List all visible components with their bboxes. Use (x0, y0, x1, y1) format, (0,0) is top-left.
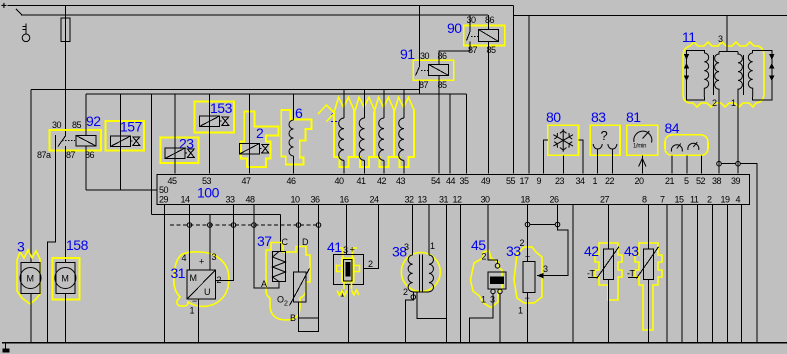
primary winding right (738, 52, 742, 96)
aux signal 83 (590, 109, 620, 174)
wire bus30 to pin2 (488, 205, 497, 264)
wire junction line y214 (151, 214, 280, 216)
wire winding bottoms joined (413, 291, 429, 293)
svg-text:46: 46 (287, 176, 297, 186)
svg-text:U: U (204, 287, 210, 297)
svg-text:17: 17 (520, 176, 530, 186)
svg-text:3: 3 (404, 242, 409, 252)
relay 92 (37, 94, 101, 342)
ignition coil 11 (682, 16, 775, 343)
svg-text:21: 21 (665, 176, 675, 186)
svg-text:55: 55 (506, 176, 516, 186)
wire bus2 to ground (712, 205, 714, 343)
wire bus26 to pin3 arrow (537, 205, 568, 276)
svg-text:29: 29 (159, 195, 169, 205)
wire rail 30 (top supply rail) (8, 5, 514, 7)
wire comp84 to bus5 (686, 155, 688, 173)
svg-text:27: 27 (600, 195, 610, 205)
svg-text:48: 48 (246, 195, 256, 205)
wire relay91 pin85 down to bus terminal 54 (438, 76, 440, 174)
fuse supply wire (64, 6, 66, 136)
wire bus7 to ground (666, 205, 668, 343)
wire coil6 vertical (293, 94, 295, 174)
svg-text:33: 33 (226, 195, 236, 205)
wire rail B right end down to bus terminal 35 (465, 94, 467, 174)
socket hooks (593, 144, 602, 149)
relay 92 dotted actuator link (62, 140, 75, 142)
wire bus36 to shield (318, 205, 320, 319)
wire bus31 to ground (446, 205, 448, 343)
wire relay92 pin85 up to rail B (85, 94, 87, 136)
svg-text:86: 86 (485, 15, 495, 25)
relay 90 (447, 15, 505, 174)
svg-text:26: 26 (550, 195, 560, 205)
hall sender 38 (392, 205, 461, 343)
core bars (714, 55, 744, 95)
wire relay90 pin85 down to bus terminal 49 (487, 42, 489, 174)
tachometer signal 81 (626, 109, 658, 174)
wire bus24 to pin2 (363, 205, 378, 269)
relay 90 coil box (479, 30, 499, 42)
svg-text:83: 83 (591, 109, 606, 125)
wire pin3 from junction line (209, 215, 211, 270)
svg-text:30: 30 (420, 51, 430, 61)
svg-text:53: 53 (202, 176, 212, 186)
svg-text:38: 38 (712, 176, 722, 186)
secondary winding left (704, 53, 708, 97)
svg-text:39: 39 (731, 176, 741, 186)
wire relay90 pin87 down-left to relay 91 (469, 42, 471, 52)
wire valve153 vertical (209, 94, 211, 174)
svg-text:+: + (1, 1, 7, 12)
connector circle pin1 (736, 161, 741, 166)
svg-text:O: O (277, 295, 284, 305)
wire bus48 to pin A (254, 205, 279, 289)
wire motor158 to ground (64, 294, 66, 343)
wire pin1 to ground (527, 293, 529, 343)
connector circle pin2 (411, 295, 416, 300)
svg-text:153: 153 (210, 100, 233, 116)
svg-text:43: 43 (624, 243, 639, 259)
wire relay91 pin86 up and over to relay90 pin87 (439, 42, 470, 65)
svg-text:31: 31 (439, 195, 449, 205)
svg-text:85: 85 (72, 120, 82, 130)
svg-text:31: 31 (171, 265, 186, 281)
svg-text:14: 14 (181, 195, 191, 205)
wire drop to bus terminal 17 (528, 16, 530, 174)
svg-text:11: 11 (682, 29, 696, 45)
svg-text:87a: 87a (37, 150, 51, 160)
svg-text:3: 3 (212, 252, 217, 262)
svg-text:12: 12 (453, 195, 463, 205)
wire relay92 pin87 down to motor 158 (64, 146, 66, 263)
svg-text:7: 7 (660, 195, 665, 205)
relay 91 (400, 6, 470, 174)
svg-text:?: ? (601, 128, 608, 143)
wire comp80 left to bus9 (544, 140, 548, 174)
svg-text:24: 24 (370, 195, 380, 205)
wire bus13 to pin1 (428, 205, 430, 256)
AC compressor signal 80 (544, 109, 584, 174)
svg-text:158: 158 (66, 237, 89, 253)
wire bus27 through sensor42 to ground (608, 205, 610, 343)
ground bus bar (2, 342, 787, 344)
fuel pump motor 3 (17, 239, 41, 343)
wire bus10 to sensor D (298, 205, 300, 273)
wire motor3 to ground (30, 294, 32, 343)
svg-text:9: 9 (537, 176, 542, 186)
svg-text:30: 30 (481, 195, 491, 205)
wire pin2 to ground (405, 292, 413, 342)
wire comp84 to bus21 (671, 155, 673, 173)
solenoid valve 157 (106, 94, 145, 190)
svg-text:90: 90 (447, 20, 462, 36)
svg-text:2: 2 (520, 238, 525, 248)
svg-text:11: 11 (690, 195, 699, 205)
svg-text:+: + (350, 245, 355, 255)
wire coil11 pin2 to bus38 (718, 96, 720, 174)
instrument gauges 84 (665, 120, 709, 174)
svg-text:2: 2 (707, 195, 712, 205)
svg-text:42: 42 (377, 176, 387, 186)
wire relay92 pin87a down with jog (48, 135, 56, 342)
svg-text:91: 91 (400, 46, 415, 62)
svg-text:+: + (199, 257, 204, 267)
wire rail30 jog down at right end (513, 6, 515, 174)
solenoid valve 23 (161, 94, 199, 174)
wire coil11 pin1 to bus39 (737, 96, 739, 174)
svg-text:B: B (290, 313, 296, 323)
wire relay92 pin86 down to bus 50 line (85, 146, 87, 190)
svg-text:3: 3 (17, 239, 25, 255)
svg-text:22: 22 (605, 176, 615, 186)
wire bus14 to pin4 (189, 205, 191, 271)
svg-text:92: 92 (86, 113, 101, 129)
svg-text:84: 84 (665, 120, 680, 136)
wire comp81 to bus20 with arrow (641, 155, 643, 173)
wire relay91 pin87 down to rail A (419, 80, 421, 94)
control unit 100 (157, 175, 749, 205)
svg-text:44: 44 (446, 176, 456, 186)
svg-text:37: 37 (257, 233, 272, 249)
wire rail B (component feed line) (86, 93, 466, 95)
injector group 1 (318, 105, 338, 125)
wire bus8 through sensor43 to ground (647, 205, 649, 343)
wire winding to bus31 link (417, 292, 447, 319)
svg-text:1: 1 (190, 306, 195, 316)
svg-text:1: 1 (731, 98, 736, 108)
shield box (299, 318, 319, 332)
relay 91 switch blade (416, 67, 420, 76)
relay 92 switch blade (58, 136, 65, 147)
wire unnumbered bus drop to ground (572, 205, 574, 343)
svg-text:100: 100 (197, 185, 220, 201)
svg-text:45: 45 (168, 176, 178, 186)
svg-text:157: 157 (120, 119, 143, 135)
connector circle pin4 (187, 223, 192, 228)
svg-text:87: 87 (66, 150, 76, 160)
svg-text:M: M (190, 273, 197, 283)
svg-text:1: 1 (430, 241, 435, 251)
solenoid valve 2 (239, 94, 278, 174)
svg-text:C: C (282, 237, 289, 247)
wire relay91 pin30 from rail 30 (419, 6, 421, 67)
solenoid valve 153 (195, 94, 235, 174)
svg-text:D: D (302, 237, 309, 247)
svg-text:2: 2 (712, 98, 717, 108)
svg-text:87: 87 (419, 80, 429, 90)
wire valve157 vertical (120, 94, 122, 190)
svg-text:35: 35 (460, 176, 470, 186)
coolant temp sensor 42 (584, 205, 622, 343)
svg-text:15: 15 (675, 195, 685, 205)
sender windings (408, 255, 413, 292)
injector 1d (394, 90, 414, 174)
svg-text:20: 20 (635, 176, 645, 186)
svg-text:A: A (261, 279, 267, 289)
svg-text:4: 4 (182, 253, 187, 263)
svg-text:36: 36 (311, 195, 321, 205)
connector circle pin3 (208, 223, 213, 228)
secondary left bracket with spark gap (687, 50, 705, 100)
connector link line (530, 224, 555, 226)
wire comp80 right to bus34 (579, 140, 584, 174)
primary top bracket (719, 51, 738, 53)
wire bus16 to pin3 (346, 205, 348, 255)
svg-text:13: 13 (418, 195, 428, 205)
wire rail B drop to junction line (150, 94, 152, 215)
secondary winding right (748, 53, 752, 97)
wire rail A left end down to motor 3 (30, 90, 32, 263)
wire bus19 to ground (726, 205, 728, 343)
ignition key symbol (22, 24, 30, 42)
injector 1c (374, 90, 394, 174)
svg-text:52: 52 (696, 176, 706, 186)
wire bus4 to ground (741, 205, 743, 343)
svg-text:2: 2 (284, 301, 288, 308)
fuel pump motor 158 (53, 237, 89, 342)
knock sensor 45 (469, 205, 506, 343)
svg-text:2: 2 (403, 287, 408, 297)
svg-text:8: 8 (642, 195, 647, 205)
svg-text:43: 43 (396, 176, 406, 186)
wire bus18 to pin2 (527, 205, 529, 262)
svg-text:49: 49 (481, 176, 491, 186)
snowflake (553, 129, 573, 152)
svg-text:10: 10 (291, 195, 301, 205)
injector 1b (355, 90, 375, 174)
sensor element box (294, 272, 307, 302)
wire comp84 to bus52 (700, 155, 702, 173)
svg-text:42: 42 (584, 243, 599, 259)
svg-text:2: 2 (368, 259, 373, 269)
svg-text:40: 40 (335, 176, 345, 186)
wire pin shield to ground (469, 294, 493, 343)
svg-text:1: 1 (518, 306, 523, 316)
svg-text:80: 80 (546, 109, 561, 125)
wire bus29 to ground (163, 205, 165, 343)
wire bus12 to ground (460, 205, 462, 343)
sender core bars (419, 255, 422, 292)
idle stabilizer valve 41 (327, 205, 378, 343)
svg-text:1: 1 (481, 295, 486, 305)
connector row dashed link (170, 224, 319, 226)
svg-text:6: 6 (295, 105, 303, 121)
relay 91 coil box (429, 65, 449, 76)
svg-text:1/min: 1/min (633, 144, 646, 150)
wire connector link to right ground drop (721, 164, 757, 343)
svg-text:16: 16 (340, 195, 350, 205)
relay 92 coil box (76, 136, 96, 147)
connector circle pin2 (717, 161, 722, 166)
svg-text:54: 54 (431, 176, 441, 186)
wire rail 30 right extension (514, 15, 787, 17)
wire pin1 to ground (348, 284, 350, 342)
connector circle pin2 (231, 223, 236, 228)
wire pin1 to ground (198, 299, 200, 342)
svg-text:23: 23 (555, 176, 565, 186)
svg-text:3: 3 (718, 34, 723, 44)
svg-text:3: 3 (543, 264, 548, 274)
svg-text:4: 4 (736, 195, 741, 205)
wire comp83 to bus22 (611, 149, 613, 174)
svg-text:19: 19 (721, 195, 731, 205)
pressure sensor 33 (506, 205, 568, 343)
svg-text:30: 30 (52, 120, 62, 130)
svg-text:1: 1 (593, 176, 598, 186)
svg-text:−: − (192, 296, 197, 306)
heater resistor (273, 252, 286, 282)
ground symbol (2, 344, 9, 353)
svg-text:M: M (27, 274, 34, 284)
secondary right bracket with spark gap (753, 50, 772, 100)
svg-text:32: 32 (405, 195, 415, 205)
wire rail30ext to coil11 pin3 (726, 16, 728, 52)
svg-text:M: M (61, 274, 68, 284)
lambda probe 37 (252, 205, 321, 332)
connector circle 48 (252, 223, 257, 228)
svg-text:41: 41 (327, 239, 342, 255)
wire rail 15 (switched supply rail) (21, 14, 488, 16)
svg-text:2: 2 (482, 252, 487, 262)
wire relay90 pin30 from rail 15 (469, 15, 471, 32)
svg-text:34: 34 (576, 176, 586, 186)
wire pin1 to ground (499, 294, 501, 343)
svg-text:18: 18 (521, 195, 531, 205)
primary winding left (715, 52, 719, 96)
svg-text:50: 50 (159, 185, 169, 195)
intake temp sensor 43 (624, 205, 662, 343)
svg-text:47: 47 (242, 176, 252, 186)
wire valve23 vertical (174, 94, 176, 174)
ignition timing coil 6 (281, 94, 311, 174)
svg-text:2: 2 (256, 125, 264, 141)
wire bus32 to pin3 (412, 205, 414, 256)
wire sensor B down (298, 302, 300, 332)
ignition switch contact (16, 9, 22, 15)
wire bus11 to ground (697, 205, 699, 343)
wire comp37 heater feed C (279, 215, 281, 252)
wire valve2 vertical (248, 94, 250, 174)
wire comp83 to bus1 (597, 149, 599, 174)
wire comp80 mid to bus23 (562, 155, 564, 173)
wire relay90 pin86 from rail15 end (487, 15, 489, 30)
svg-text:81: 81 (626, 109, 641, 125)
wire bus15 to ground (681, 205, 683, 343)
relay 90 switch blade (467, 32, 471, 41)
connector circle 36 (316, 223, 321, 228)
wire bus 50 feed line (86, 189, 157, 191)
svg-text:87: 87 (468, 45, 478, 55)
injector 1a (334, 90, 354, 174)
wire bus33 to pin2 (216, 205, 234, 281)
svg-text:3: 3 (343, 245, 348, 255)
fuse S (61, 18, 70, 41)
air flow meter 31 (171, 205, 236, 343)
svg-text:30: 30 (467, 15, 477, 25)
wire rail B tap down to bus terminal 44 (449, 94, 451, 174)
wire rail A (feed from relay 91 pin 87) (31, 89, 420, 91)
svg-text:41: 41 (357, 176, 367, 186)
svg-text:5: 5 (684, 176, 689, 186)
connector circle 10 (296, 223, 301, 228)
